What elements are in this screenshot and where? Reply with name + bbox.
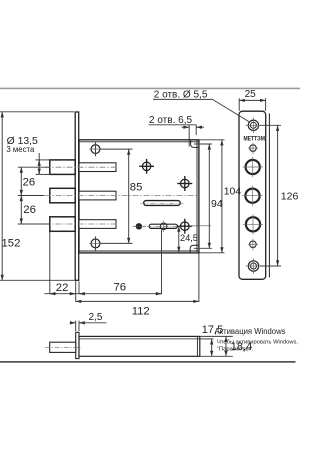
centerline bolt 3 [45, 223, 119, 225]
svg-text:3 места: 3 места [6, 145, 35, 154]
dimension 26 (upper) [18, 167, 50, 195]
dimension 112 [76, 254, 199, 303]
side view faceplate [76, 332, 79, 358]
svg-text:МЕТТЭМ: МЕТТЭМ [243, 135, 265, 142]
strike plate [239, 111, 266, 279]
dimension 24,5 [178, 226, 180, 252]
side view bolt [50, 342, 76, 352]
plate small hole 1 [248, 143, 258, 155]
dimension 94 [194, 144, 212, 248]
svg-text:24,5: 24,5 [180, 233, 198, 243]
corner post bottom-right [190, 245, 198, 252]
dimension 22 / 76 [44, 230, 161, 302]
bolt shaft 2 [79, 191, 116, 200]
svg-text:22: 22 [56, 282, 69, 294]
svg-text:104: 104 [224, 186, 242, 198]
svg-text:Активация Windows: Активация Windows [215, 326, 286, 336]
bolt 3 [50, 217, 75, 232]
svg-text:Чтобы активировать Windows,: Чтобы активировать Windows, [217, 340, 298, 346]
plate small hole 2 [248, 239, 258, 251]
lock body [79, 140, 199, 253]
svg-text:2,5: 2,5 [89, 312, 103, 323]
side view body [79, 336, 200, 356]
bottom rule line [0, 361, 296, 363]
slot [144, 201, 181, 206]
svg-text:94: 94 [211, 198, 223, 210]
plate big hole 3 [243, 214, 263, 234]
dimension 26 (lower) [18, 196, 50, 225]
corner post top-right [191, 140, 199, 147]
svg-text:112: 112 [132, 305, 150, 317]
bolt 1 [50, 160, 75, 175]
svg-text:26: 26 [23, 204, 36, 216]
hole top-left [89, 142, 102, 156]
svg-text:25: 25 [245, 89, 257, 100]
hole small lower [177, 219, 192, 234]
svg-text:26: 26 [23, 177, 36, 189]
bolt shaft 3 [79, 220, 116, 229]
svg-text:2 отв. 6,5: 2 отв. 6,5 [149, 115, 192, 126]
bolt shaft 1 [79, 163, 116, 172]
dimension 104 [200, 140, 225, 253]
cylinder pin (filled) [136, 223, 142, 229]
centerline bolt 2 / body axis [45, 195, 198, 197]
centerline bolt 1 [45, 166, 119, 168]
hole right [177, 176, 192, 191]
extension line small hole to right [190, 225, 211, 227]
dimension 2,5 [70, 321, 107, 331]
svg-text:“Параметры”.: “Параметры”. [217, 347, 254, 353]
dimension 25 [239, 98, 265, 111]
top rule line [0, 87, 300, 89]
svg-text:85: 85 [130, 182, 143, 194]
plate screw hole bottom [246, 258, 262, 274]
svg-text:76: 76 [114, 282, 127, 294]
bolt 2 [50, 188, 75, 203]
key rod [149, 224, 177, 228]
svg-text:152: 152 [2, 238, 21, 250]
dimension 126 [260, 125, 281, 266]
hole top-middle [139, 159, 154, 174]
plate screw hole top [246, 118, 262, 134]
dimension 152 [0, 112, 75, 280]
faceplate strip (front view) [75, 112, 79, 280]
hole bottom-left [89, 236, 102, 250]
dimension 85 [101, 149, 133, 243]
dimension 17,5 [201, 336, 233, 356]
svg-text:126: 126 [281, 190, 299, 202]
plate big hole 1 [243, 157, 263, 177]
dimension 18,4 [225, 336, 227, 356]
plate big hole 2 [242, 186, 262, 206]
